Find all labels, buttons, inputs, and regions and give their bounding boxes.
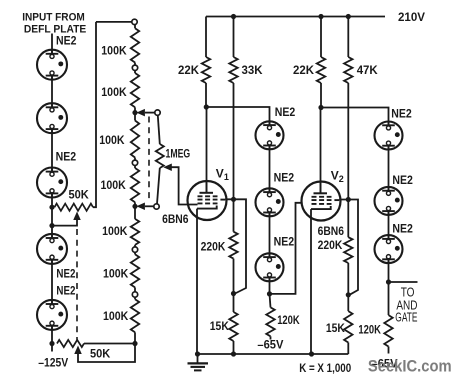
svg-text:15K: 15K bbox=[326, 321, 345, 335]
node middle chain bottom bbox=[267, 291, 272, 296]
label -65V left bbox=[257, 337, 283, 351]
label NE2 lamp DS10 bbox=[392, 175, 413, 187]
wire tap1 terminal to 1MEG top bbox=[158, 115, 160, 144]
label INPUT FROM bbox=[22, 12, 85, 24]
svg-text:100K: 100K bbox=[101, 43, 127, 57]
wire DS9 to DS10 bbox=[388, 146, 390, 191]
wire V2 screen to bypass bbox=[339, 200, 358, 295]
wire V2 plate lead up bbox=[320, 108, 322, 194]
wire V2 cathode to ground rail bbox=[310, 209, 312, 354]
resistor 220K left bbox=[229, 232, 237, 259]
tube V1 6BN6 bbox=[188, 181, 227, 220]
resistor 15K right bbox=[344, 311, 352, 342]
resistor 100K R7 bbox=[131, 299, 139, 332]
wire 50K-bottom wiper down and around bbox=[78, 344, 135, 362]
label 6BN6 V2 bbox=[318, 224, 345, 238]
resistor 220K right bbox=[344, 237, 352, 263]
resistor 1MEG bbox=[156, 144, 164, 168]
terminal node R5/R6 bbox=[132, 247, 137, 252]
node 220K/15K-right junction bbox=[346, 292, 351, 297]
wire R5-R6 bbox=[134, 245, 136, 254]
ground symbol bbox=[188, 363, 209, 370]
svg-text:210V: 210V bbox=[398, 10, 425, 24]
resistor 33K bbox=[229, 57, 237, 83]
wire 15K-right bottom lead bbox=[347, 343, 349, 355]
neon lamp DS7 bbox=[256, 188, 284, 216]
svg-text:DEFL PLATE: DEFL PLATE bbox=[24, 23, 86, 35]
wire 33K down to V1 screen node bbox=[233, 83, 235, 232]
svg-text:15K: 15K bbox=[210, 319, 229, 333]
wire DS2 to DS3 bbox=[51, 129, 53, 172]
wire DS5 to -125V bbox=[51, 326, 53, 352]
node tap1 bbox=[132, 110, 137, 115]
label 100K R4 bbox=[101, 178, 127, 192]
neon lamp DS6 bbox=[256, 121, 284, 149]
resistor 100K R4 bbox=[131, 168, 139, 202]
label 22K left bbox=[178, 63, 199, 77]
svg-text:120K: 120K bbox=[358, 323, 381, 337]
svg-text:NE2: NE2 bbox=[56, 268, 75, 280]
terminal tap2 bbox=[154, 204, 159, 209]
node junction 50K-top left end bbox=[49, 205, 54, 210]
label 120K right bbox=[358, 323, 381, 337]
tube V2 6BN6 bbox=[302, 182, 341, 221]
wire 1MEG wiper to V1 grid bbox=[171, 167, 198, 204]
svg-text:NE2: NE2 bbox=[275, 107, 296, 119]
label 6BN6 V1 bbox=[162, 212, 189, 226]
resistor 50K lower (horizontal) bbox=[57, 340, 84, 347]
resistor 100K R2 bbox=[131, 73, 139, 107]
resistor 120K left bbox=[266, 307, 274, 336]
wire 22K-right top lead bbox=[320, 17, 322, 58]
svg-text:GATE: GATE bbox=[395, 310, 417, 324]
wire 22K-left top lead bbox=[205, 17, 207, 58]
node junction 47K on 210V rail bbox=[346, 14, 351, 19]
label NE2 lamp DS3 bbox=[56, 151, 77, 163]
label NE2 lamp DS8 bbox=[274, 237, 295, 249]
wire 15K-left bottom lead bbox=[233, 341, 235, 354]
node output junction bbox=[386, 279, 391, 284]
svg-text:–65V: –65V bbox=[257, 337, 283, 351]
svg-text:220K: 220K bbox=[318, 238, 343, 252]
wire 22K-left bottom lead bbox=[205, 83, 207, 107]
wire 50K-top right end up to divider top bbox=[93, 22, 96, 207]
svg-text:NE2: NE2 bbox=[56, 35, 77, 47]
wire wiper link to lamp chain bbox=[52, 220, 77, 226]
node 220K/15K-left junction bbox=[231, 291, 236, 296]
label 15K right bbox=[326, 321, 345, 335]
node 15K-left on ground rail bbox=[231, 351, 236, 356]
watermark SeekIC.com bbox=[368, 357, 452, 375]
node junction 22K-right on 210V rail bbox=[318, 14, 323, 19]
terminal node R1/R2 bbox=[132, 65, 137, 70]
wire R2-tap1 bbox=[134, 107, 136, 120]
label NE2 lamp DS1 bbox=[56, 35, 77, 47]
wire V1 cathode to ground rail bbox=[196, 209, 198, 354]
neon lamp DS2 bbox=[37, 103, 67, 133]
label -125V bbox=[38, 356, 68, 370]
label 1MEG bbox=[166, 146, 191, 160]
label 100K R5 bbox=[102, 224, 128, 238]
wire R1-R2 bbox=[134, 63, 136, 74]
terminal divider top bbox=[132, 19, 137, 24]
resistor 50K upper (horizontal) bbox=[55, 204, 94, 211]
wire 47K top lead bbox=[347, 17, 349, 58]
wire 22K-right bottom lead bbox=[320, 83, 322, 108]
label K=X 1,000 bbox=[299, 361, 351, 375]
svg-text:100K: 100K bbox=[101, 178, 127, 192]
wire tap1 to terminal bbox=[145, 112, 155, 114]
wire 33K top lead bbox=[233, 17, 235, 58]
svg-text:120K: 120K bbox=[277, 313, 300, 327]
resistor 100K R6 bbox=[131, 254, 139, 287]
svg-text:100K: 100K bbox=[103, 309, 129, 323]
wire DS1 to DS2 bbox=[51, 76, 53, 108]
gang dashed link upper-to-lower wiper bbox=[76, 229, 78, 341]
label GATE bbox=[395, 310, 417, 324]
resistor 15K left bbox=[229, 312, 237, 341]
label 120K left bbox=[277, 313, 300, 327]
label V2 bbox=[331, 169, 344, 185]
wire 220K-left bottom lead bbox=[233, 259, 235, 312]
wire V2 plate to right NE2 chain bbox=[321, 108, 389, 126]
svg-text:INPUT FROM: INPUT FROM bbox=[22, 12, 85, 24]
resistor 100K R1 bbox=[131, 28, 139, 62]
wire 120K-left top lead bbox=[270, 294, 271, 308]
neon lamp DS8 bbox=[256, 253, 284, 281]
label 22K right bbox=[293, 63, 314, 77]
node ground junction bbox=[195, 351, 200, 356]
svg-text:NE2: NE2 bbox=[392, 224, 413, 236]
node V2 screen junction bbox=[346, 197, 351, 202]
svg-text:NE2: NE2 bbox=[274, 237, 295, 249]
wire divider top bbox=[96, 21, 132, 23]
label AND bbox=[396, 299, 417, 313]
wire DS7 to DS8 bbox=[269, 213, 271, 258]
wiper arrow tap1 bbox=[136, 109, 145, 117]
wiper arrow 1MEG bbox=[163, 163, 172, 171]
svg-text:SeekIC.com: SeekIC.com bbox=[368, 357, 452, 375]
wire 50K lower to divider bbox=[84, 343, 135, 345]
svg-text:NE2: NE2 bbox=[274, 173, 295, 185]
label 100K R6 bbox=[103, 267, 129, 281]
svg-text:6BN6: 6BN6 bbox=[162, 212, 189, 226]
resistor 22K right bbox=[317, 57, 325, 83]
svg-text:100K: 100K bbox=[103, 267, 129, 281]
label NE2 lamp DS9 bbox=[391, 109, 412, 121]
svg-text:NE2: NE2 bbox=[56, 286, 75, 298]
label 100K R1 bbox=[101, 43, 127, 57]
label NE2 lamp DS5 bbox=[56, 286, 75, 298]
node V1 screen junction bbox=[231, 197, 236, 202]
wire input lead to lamp DS1 bbox=[51, 34, 53, 54]
neon lamp DS4 bbox=[37, 234, 67, 264]
wire 120K-right bottom lead bbox=[388, 347, 390, 354]
svg-text:50K: 50K bbox=[69, 188, 90, 202]
terminal tap1 bbox=[155, 110, 160, 115]
wiper arrow tap2 bbox=[136, 203, 145, 211]
wire V1 plate to middle NE2 chain bbox=[206, 107, 269, 125]
wire DS3 to DS4 bbox=[51, 193, 53, 238]
resistor 120K right bbox=[384, 315, 392, 346]
wire 47K down to V2 screen node bbox=[347, 83, 349, 237]
label V1 bbox=[216, 166, 229, 182]
label NE2 lamp DS11 bbox=[392, 224, 413, 236]
svg-text:47K: 47K bbox=[357, 63, 378, 77]
terminal node R3/R4 bbox=[132, 160, 137, 165]
resistor 100K R5 bbox=[131, 219, 139, 245]
neon lamp DS5 bbox=[37, 300, 67, 330]
label 50K lower bbox=[90, 347, 111, 361]
label 100K R2 bbox=[101, 85, 127, 99]
label 220K right bbox=[318, 238, 343, 252]
label 210V bbox=[398, 10, 425, 24]
node junction wiper tap bbox=[49, 223, 54, 228]
neon lamp DS11 bbox=[375, 235, 403, 263]
wire ground rail bbox=[198, 353, 349, 355]
wire DS10 to DS11 bbox=[388, 211, 390, 239]
svg-text:22K: 22K bbox=[293, 63, 314, 77]
svg-text:NE2: NE2 bbox=[392, 175, 413, 187]
label 100K R7 bbox=[103, 309, 129, 323]
svg-text:33K: 33K bbox=[242, 63, 263, 77]
node divider bottom bbox=[132, 341, 137, 346]
label 50K upper bbox=[69, 188, 90, 202]
resistor 22K left bbox=[202, 57, 210, 83]
label 100K R3 bbox=[99, 133, 125, 147]
wire 210V supply rail bbox=[206, 16, 385, 18]
wiper arrow 50K upper bbox=[73, 212, 81, 221]
svg-text:K = X 1,000: K = X 1,000 bbox=[299, 361, 351, 375]
wire R7 to bottom node bbox=[134, 332, 136, 343]
svg-text:NE2: NE2 bbox=[56, 151, 77, 163]
label NE2 lamp DS4 bbox=[56, 268, 75, 280]
node tap2 bbox=[132, 204, 137, 209]
label 47K bbox=[357, 63, 378, 77]
wiper arrow 50K lower bbox=[74, 346, 82, 355]
wire output to AND gate bbox=[389, 281, 418, 283]
label NE2 lamp DS7 bbox=[274, 173, 295, 185]
wire divider top stub bbox=[134, 25, 136, 28]
terminal node R6/R7 bbox=[132, 292, 137, 297]
svg-text:–125V: –125V bbox=[38, 356, 68, 370]
neon lamp DS9 bbox=[375, 122, 403, 150]
wire R4-tap2 bbox=[134, 202, 136, 219]
node V1 plate junction bbox=[204, 104, 209, 109]
label TO bbox=[401, 286, 415, 300]
svg-text:100K: 100K bbox=[101, 85, 127, 99]
wire R3-R4 bbox=[134, 158, 136, 169]
node V2 plate junction bbox=[318, 105, 323, 110]
svg-text:50K: 50K bbox=[90, 347, 111, 361]
label 220K left bbox=[201, 240, 226, 254]
svg-text:NE2: NE2 bbox=[391, 109, 412, 121]
resistor 100K R3 bbox=[131, 121, 139, 158]
label 33K bbox=[242, 63, 263, 77]
node junction 33K on 210V rail bbox=[231, 14, 236, 19]
wire DS11 to output node bbox=[388, 259, 390, 315]
svg-text:100K: 100K bbox=[102, 224, 128, 238]
wire DS8 to 120K-left node bbox=[269, 278, 271, 294]
resistor 47K bbox=[344, 57, 352, 83]
node junction 50K-bottom left end bbox=[49, 341, 54, 346]
svg-text:TO: TO bbox=[401, 286, 415, 300]
neon lamp DS1 bbox=[37, 50, 67, 80]
label DEFL PLATE bbox=[24, 23, 86, 35]
svg-text:220K: 220K bbox=[201, 240, 226, 254]
wire V1 plate lead up bbox=[206, 107, 208, 193]
wire 1MEG bottom to tap2 terminal bbox=[157, 168, 160, 204]
wire 120K-left bottom lead bbox=[270, 336, 272, 339]
svg-text:100K: 100K bbox=[99, 133, 125, 147]
wire 220K-right bottom lead bbox=[347, 263, 349, 311]
wire V2 grid link bbox=[270, 203, 303, 294]
wire tap2 to terminal bbox=[145, 205, 154, 207]
svg-text:6BN6: 6BN6 bbox=[318, 224, 345, 238]
node V2 cathode on ground rail bbox=[309, 351, 314, 356]
neon lamp DS10 bbox=[375, 187, 403, 215]
label NE2 lamp DS6 bbox=[275, 107, 296, 119]
wire R6-R7 bbox=[134, 287, 136, 299]
label 15K left bbox=[210, 319, 229, 333]
svg-text:22K: 22K bbox=[178, 63, 199, 77]
svg-text:1MEG: 1MEG bbox=[166, 146, 191, 160]
wire ground lead bbox=[197, 354, 199, 363]
wire DS4 to DS5 bbox=[51, 260, 53, 304]
label -65V right bbox=[372, 357, 398, 371]
neon lamp DS3 bbox=[37, 168, 67, 198]
wire V1 screen to bypass bbox=[225, 199, 246, 293]
wire DS6 to DS7 bbox=[269, 146, 271, 193]
gang dashed link tap1-tap2 bbox=[148, 117, 150, 203]
